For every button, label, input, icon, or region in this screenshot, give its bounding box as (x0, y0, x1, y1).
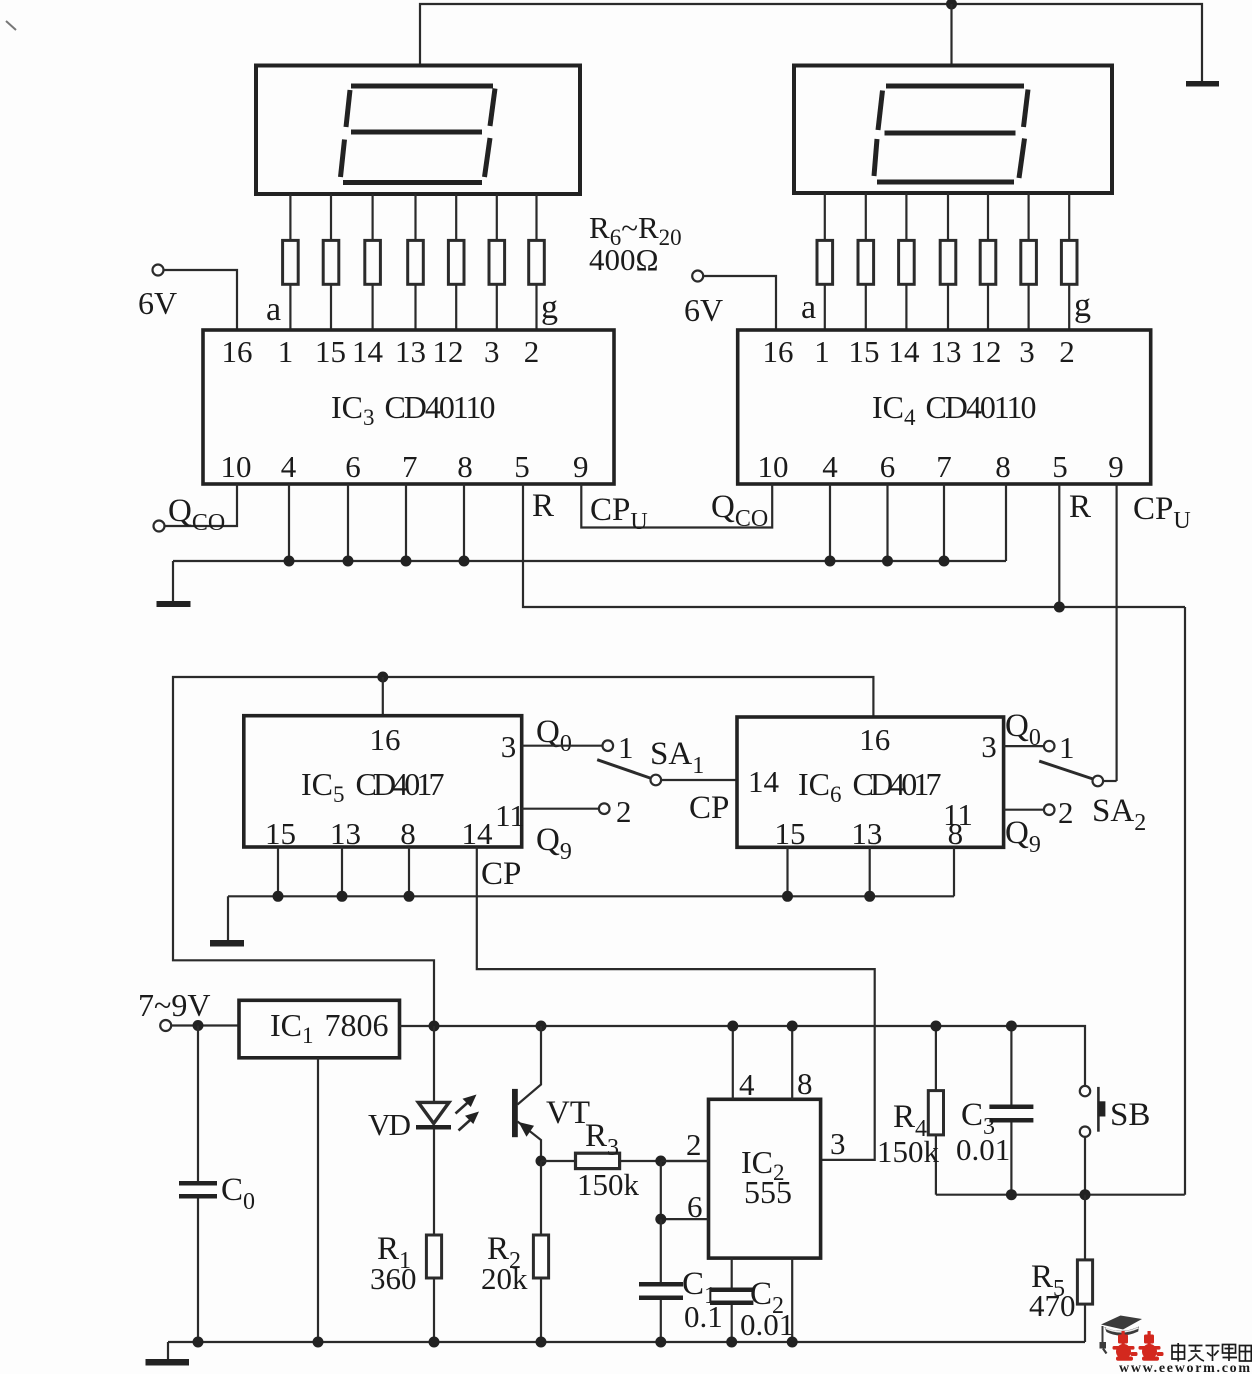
watermark chongchong red glyphs (1113, 1331, 1164, 1361)
wire IC5 pin8 (408, 847, 410, 896)
svg-text:20k: 20k (481, 1261, 528, 1296)
op-amp IC3 CD40110 box (203, 330, 614, 484)
display DS2 digit 8 segments (874, 86, 1028, 182)
wire bottom ground rail (168, 1341, 1085, 1343)
wire IC4 pin8 to rail (1005, 484, 1007, 561)
node VT collector junction (536, 1021, 547, 1032)
svg-text:1: 1 (278, 334, 294, 369)
svg-text:2: 2 (1059, 334, 1075, 369)
svg-text:VT: VT (546, 1095, 590, 1131)
terminal SA2 contact 1 (1044, 741, 1055, 752)
wire IC6 pin15 (786, 847, 788, 896)
switch SA1 lever and pole (597, 760, 737, 786)
wire IC4 pin5 to R net (1058, 484, 1060, 607)
svg-text:16: 16 (222, 334, 253, 369)
wire IC2 pin4 (732, 1026, 734, 1099)
svg-text:SB: SB (1110, 1097, 1150, 1133)
watermark eeworm logo graduation cap (1100, 1316, 1143, 1354)
wire IC6 pin8 (953, 847, 955, 896)
wire IC5 pin3 to SA1 contact 1 (522, 745, 603, 747)
labels IC6 pin numbers (748, 722, 997, 851)
node IC4 pin7 (939, 556, 950, 567)
wire IC4 pin6 to rail (886, 484, 888, 561)
svg-text:Q9: Q9 (536, 822, 572, 865)
node IC2 pin6 junction (655, 1214, 666, 1225)
svg-text:a: a (266, 291, 281, 328)
svg-text:5: 5 (1052, 449, 1068, 484)
watermark site name glyph blocks (1172, 1343, 1251, 1362)
labels IC3 top pin numbers (222, 334, 540, 369)
svg-text:0.01: 0.01 (956, 1132, 1010, 1167)
resistor R3 (541, 1153, 709, 1168)
node R2 bottom (536, 1337, 547, 1348)
node IC4 pin5 on R net (1054, 602, 1065, 613)
svg-text:14: 14 (889, 334, 921, 369)
wire IC2 pin8 (791, 1026, 793, 1099)
wire ground rail upper (173, 560, 1006, 562)
node C0 top junction (193, 1020, 204, 1031)
svg-text:16: 16 (370, 722, 401, 757)
svg-text:a: a (801, 289, 816, 326)
labels IC3 bottom pin numbers (221, 449, 589, 484)
resistor R5 (1077, 1195, 1092, 1342)
wire 6V output rail (400, 1026, 1086, 1086)
svg-text:CP: CP (689, 790, 729, 826)
node IC4 pin6 (882, 556, 893, 567)
node VT emitter junction (536, 1156, 547, 1167)
resistor R4 (928, 1026, 943, 1195)
svg-text:6: 6 (345, 449, 361, 484)
svg-text:13: 13 (851, 816, 882, 851)
timer IC2 555 box (709, 1099, 821, 1258)
svg-text:R: R (1069, 489, 1091, 525)
svg-text:4: 4 (822, 449, 838, 484)
wire pin2 to pin6 link (660, 1161, 662, 1219)
capacitor C1 (639, 1219, 683, 1342)
terminal SA1 contact 2 (599, 803, 610, 814)
svg-text:0.01: 0.01 (740, 1307, 794, 1342)
svg-text:3: 3 (501, 729, 517, 764)
wire CPU of IC3 to QCO pin10 of IC4 (581, 484, 772, 528)
svg-text:400Ω: 400Ω (589, 242, 659, 277)
diode VD LED (416, 1026, 451, 1235)
stray scan tick top left (6, 21, 16, 30)
wire IC2 pin1 ground (791, 1258, 793, 1342)
svg-text:g: g (1074, 287, 1091, 324)
node R3 to IC2 pin2 junction (655, 1156, 666, 1167)
transistor VT (512, 1026, 541, 1161)
node C3 bottom (1006, 1189, 1017, 1200)
svg-text:6V: 6V (138, 285, 177, 321)
display DS1 digit 8 segments (341, 86, 496, 183)
svg-text:10: 10 (758, 449, 789, 484)
svg-text:2: 2 (616, 794, 632, 829)
svg-text:CPU: CPU (1133, 491, 1191, 534)
wire Vdd rail of IC5 IC6 (173, 677, 873, 1026)
svg-text:14: 14 (352, 334, 384, 369)
node IC5 pin16 junction (377, 672, 388, 683)
svg-text:14: 14 (748, 764, 780, 799)
node IC5 pin8 (404, 891, 415, 902)
svg-text:4: 4 (739, 1067, 755, 1102)
node IC3 pin8 (459, 556, 470, 567)
display DS2 (794, 66, 1112, 194)
svg-text:9: 9 (1108, 449, 1124, 484)
resistor R2 (533, 1161, 548, 1342)
counter IC6 CD4017 box (737, 717, 1004, 847)
node C2 bottom (726, 1337, 737, 1348)
svg-text:8: 8 (797, 1066, 813, 1101)
svg-text:IC3CD40110: IC3CD40110 (331, 389, 496, 430)
node C3 top junction (1006, 1021, 1017, 1032)
svg-text:2: 2 (686, 1127, 702, 1162)
svg-text:3: 3 (484, 334, 500, 369)
wire IC5 pin15 (277, 847, 279, 896)
node R4 top junction (930, 1021, 941, 1032)
svg-text:Q9: Q9 (1005, 815, 1041, 858)
svg-text:7: 7 (402, 449, 418, 484)
label R6~R20 400ohm (589, 210, 682, 277)
svg-text:C0: C0 (221, 1172, 255, 1215)
svg-text:1: 1 (1059, 730, 1075, 765)
node top supply junction (946, 0, 957, 10)
wire IC5 pin11 to SA1 contact 2 (522, 808, 599, 810)
svg-text:7: 7 (936, 449, 952, 484)
svg-text:3: 3 (981, 729, 997, 764)
resistor R1 (426, 1235, 441, 1342)
svg-text:6V: 6V (684, 292, 723, 328)
terminal QCO of IC3 (154, 484, 238, 532)
svg-text:Q0: Q0 (536, 714, 572, 757)
capacitor C3 (989, 1026, 1033, 1195)
svg-text:8: 8 (400, 816, 416, 851)
svg-text:13: 13 (395, 334, 426, 369)
terminal 6V right (692, 271, 776, 331)
terminal SA1 contact 1 (603, 740, 614, 751)
svg-text:6: 6 (880, 449, 896, 484)
labels IC4 bottom pin numbers (758, 449, 1124, 484)
svg-text:IC17806: IC17806 (270, 1007, 389, 1048)
switch SB push button (1080, 1086, 1106, 1195)
svg-text:13: 13 (330, 816, 361, 851)
svg-text:150k: 150k (577, 1167, 640, 1202)
display DS1 (256, 66, 580, 195)
wire IC3 pin7 to rail (405, 484, 407, 561)
node IC5 pin13 (337, 891, 348, 902)
node SB bottom (1080, 1189, 1091, 1200)
capacitor C2 (710, 1258, 753, 1342)
node C1 bottom (655, 1337, 666, 1348)
svg-text:3: 3 (1019, 334, 1035, 369)
wire IC6 pin3 to SA2 contact 1 (1004, 745, 1044, 747)
svg-text:IC6CD4017: IC6CD4017 (798, 766, 942, 807)
node IC4 pin4 (825, 556, 836, 567)
ground of counter rail (210, 896, 244, 946)
svg-text:www.eeworm.com: www.eeworm.com (1119, 1361, 1250, 1374)
svg-text:470: 470 (1029, 1288, 1076, 1323)
svg-text:11: 11 (495, 798, 525, 833)
svg-text:6: 6 (687, 1189, 703, 1224)
svg-text:7~9V: 7~9V (138, 987, 210, 1023)
wire IC3 pin8 to rail (463, 484, 465, 561)
node IC1 ground (313, 1337, 324, 1348)
svg-text:9: 9 (573, 449, 589, 484)
wire reset node R4 C3 SB (936, 1194, 1185, 1196)
svg-text:Q0: Q0 (1005, 708, 1041, 751)
svg-text:8: 8 (457, 449, 473, 484)
svg-text:8: 8 (948, 816, 964, 851)
svg-text:QCO: QCO (711, 489, 768, 532)
wire IC6 pin13 (869, 847, 871, 896)
LED emission arrows (456, 1095, 480, 1131)
capacitor C0 (179, 1026, 217, 1343)
node IC5 pin15 (273, 891, 284, 902)
svg-text:SA2: SA2 (1092, 793, 1146, 836)
svg-text:555: 555 (744, 1174, 792, 1210)
svg-text:360: 360 (370, 1261, 417, 1296)
svg-text:CP: CP (481, 856, 521, 892)
svg-text:R: R (532, 488, 554, 524)
svg-text:4: 4 (281, 449, 297, 484)
wire R reset net IC3 pin5 (523, 484, 1185, 607)
svg-text:10: 10 (221, 449, 252, 484)
wire IC5 pin16 (382, 677, 384, 716)
node IC2 pin8 junction (787, 1021, 798, 1032)
svg-text:16: 16 (859, 722, 890, 757)
wire IC2 pin6 (661, 1218, 709, 1220)
svg-text:150k: 150k (877, 1134, 940, 1169)
op-amp IC4 CD40110 box (738, 330, 1151, 484)
wire IC5 pin14 CP to IC2 pin3 (477, 847, 875, 1160)
labels IC5 pin numbers (265, 722, 525, 851)
svg-text:15: 15 (849, 334, 880, 369)
svg-text:13: 13 (931, 334, 962, 369)
node IC3 pin6 (343, 556, 354, 567)
resistor bank R6-R12 (left display segment resistors) (283, 194, 545, 330)
wire IC3 pin6 to rail (347, 484, 349, 561)
terminal 7~9V input (160, 1020, 239, 1031)
node IC3 pin4 (284, 556, 295, 567)
wire IC4 pin7 to rail (943, 484, 945, 561)
ground top right (1186, 81, 1219, 87)
ground of upper rail (157, 561, 191, 607)
svg-text:QCO: QCO (168, 493, 225, 536)
svg-text:16: 16 (763, 334, 794, 369)
wire top supply rail (420, 4, 1202, 82)
svg-text:IC4CD40110: IC4CD40110 (872, 389, 1037, 430)
wire IC6 pin11 to SA2 contact 2 (1004, 809, 1044, 811)
node IC3 pin7 (401, 556, 412, 567)
svg-text:8: 8 (995, 449, 1011, 484)
counter IC5 CD4017 box (244, 716, 522, 847)
wire IC3 pin4 to rail (288, 484, 290, 561)
wire R net vertical right side (1184, 607, 1186, 1195)
node IC6 pin13 (864, 891, 875, 902)
svg-text:14: 14 (462, 816, 494, 851)
svg-text:12: 12 (433, 334, 464, 369)
resistor bank R13-R20 (right display segment resistors) (817, 193, 1077, 330)
wire IC1 ground pin (317, 1058, 319, 1342)
node IC2 pin1 bottom (787, 1337, 798, 1348)
node VD top junction (429, 1021, 440, 1032)
wire CPU of IC4 down to SA2 (1115, 484, 1117, 781)
svg-text:1: 1 (814, 334, 830, 369)
svg-text:15: 15 (265, 816, 296, 851)
wire IC4 pin4 to rail (829, 484, 831, 561)
terminal SA2 contact 2 (1044, 804, 1055, 815)
svg-text:1: 1 (618, 730, 634, 765)
node C0 bottom (193, 1337, 204, 1348)
svg-text:2: 2 (524, 334, 540, 369)
switch SA2 lever and pole (1039, 761, 1116, 786)
node R1 bottom (429, 1337, 440, 1348)
svg-text:15: 15 (315, 334, 346, 369)
regulator IC1 7806 box (239, 1000, 400, 1058)
svg-text:15: 15 (775, 816, 806, 851)
svg-text:5: 5 (514, 449, 530, 484)
labels IC4 top pin numbers (763, 334, 1075, 369)
svg-text:SA1: SA1 (650, 736, 704, 779)
svg-text:g: g (541, 289, 558, 326)
ground bottom left (146, 1342, 190, 1366)
svg-text:VD: VD (368, 1107, 411, 1142)
terminal 6V left (153, 265, 238, 331)
wire IC5 pin13 (341, 847, 343, 896)
svg-text:3: 3 (830, 1126, 846, 1161)
node IC2 pin4 junction (727, 1021, 738, 1032)
svg-text:12: 12 (971, 334, 1002, 369)
svg-text:2: 2 (1058, 795, 1074, 830)
svg-text:IC5CD4017: IC5CD4017 (301, 766, 445, 807)
wire IC2 pin2 (661, 1160, 709, 1162)
wire ground rail of IC5 IC6 (228, 895, 954, 897)
node IC6 pin15 (782, 891, 793, 902)
wire display2 anode (950, 4, 952, 66)
